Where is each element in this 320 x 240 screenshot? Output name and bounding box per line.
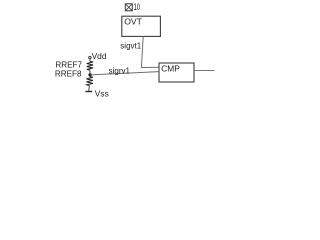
resistor RREF8 (zigzag) [86, 77, 93, 86]
svg-text:Vss: Vss [95, 88, 109, 98]
svg-text:RREF8: RREF8 [55, 69, 82, 79]
svg-text:10: 10 [134, 2, 141, 12]
node junction (dot) [88, 73, 91, 76]
comparator CMP (box) [159, 63, 194, 82]
wire OVT output (vertical, down from OVT box) [141, 36, 143, 67]
svg-text:sigrv1: sigrv1 [109, 66, 131, 75]
reference numeral icon (boxed X) [125, 4, 132, 11]
svg-text:CMP: CMP [161, 64, 180, 74]
wire RREF7 to node [89, 70, 91, 75]
wire RREF8 to Vss rail [88, 86, 91, 92]
wire CMP output (to right) [194, 70, 215, 72]
wire node to CMP lower input (sigrv1) [90, 72, 159, 75]
svg-text:sigvt1: sigvt1 [120, 41, 141, 50]
wire sigvt1 to CMP upper input [141, 66, 159, 68]
resistor RREF7 (zigzag) [87, 61, 93, 70]
power terminal Vdd (open circle) [89, 56, 91, 58]
block OVT (box) [122, 16, 161, 36]
power rail Vss (bar terminal) [85, 91, 92, 93]
wire Vdd to RREF7 [89, 59, 91, 61]
svg-text:Vdd: Vdd [92, 51, 107, 61]
svg-text:OVT: OVT [124, 17, 142, 27]
